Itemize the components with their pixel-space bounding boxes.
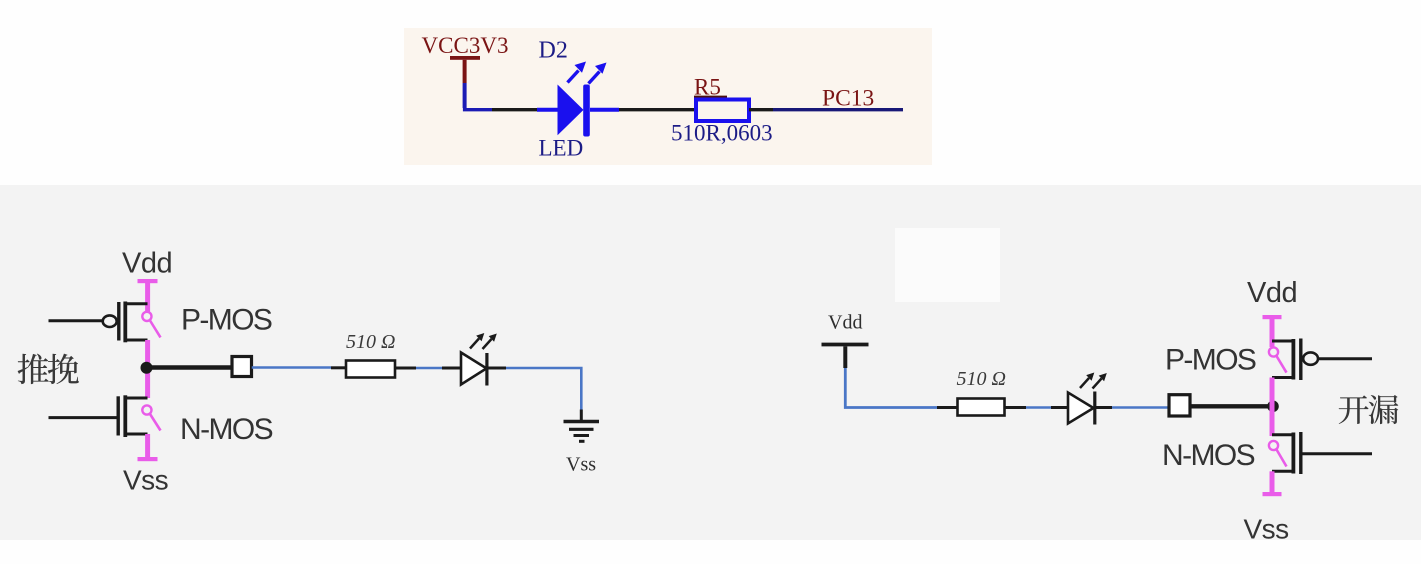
- svg-text:P-MOS: P-MOS: [1165, 344, 1256, 377]
- svg-text:510R,0603: 510R,0603: [671, 121, 773, 146]
- resistor 510 ohm (right): [958, 399, 1005, 416]
- resistor R5: [696, 100, 749, 122]
- svg-text:Vdd: Vdd: [828, 312, 862, 334]
- pin box (right): [1169, 395, 1190, 416]
- Vdd rail bar (left): [138, 279, 158, 312]
- LED D2 symbol: [537, 85, 619, 137]
- switch symbol inside N-MOS (right): [1269, 441, 1287, 467]
- LED emission arrows (left): [470, 333, 497, 349]
- node output junction (right): [1267, 401, 1279, 413]
- transistor N-MOS (right): [1272, 432, 1372, 474]
- svg-text:PC13: PC13: [822, 86, 874, 112]
- svg-text:510 Ω: 510 Ω: [346, 331, 395, 353]
- wire R5 to PC13: [749, 108, 903, 111]
- transistor P-MOS (left): [49, 302, 148, 343]
- svg-text:N-MOS: N-MOS: [1162, 439, 1255, 472]
- designator R5: [694, 75, 727, 100]
- switch symbol inside P-MOS (right): [1269, 347, 1287, 372]
- wire VCC3V3 to LED anode: [465, 83, 537, 110]
- LED D2 emission arrows: [568, 62, 607, 84]
- node output junction (left): [141, 362, 153, 374]
- transistor N-MOS (left): [49, 395, 148, 437]
- ground symbol Vss: [564, 410, 600, 442]
- svg-text:510 Ω: 510 Ω: [957, 368, 1006, 390]
- wire resistor to LED (left): [395, 367, 462, 370]
- wire pin box to resistor (left): [252, 366, 346, 369]
- svg-text:Vdd: Vdd: [122, 248, 172, 280]
- LED emission arrows (right): [1080, 373, 1107, 389]
- Vss rail bar (right): [1263, 471, 1282, 496]
- Vdd T symbol (right): [822, 345, 869, 369]
- wire drain junction (magenta, left): [145, 340, 150, 398]
- svg-text:Vss: Vss: [123, 465, 168, 496]
- svg-text:Vss: Vss: [566, 454, 596, 476]
- svg-text:Vss: Vss: [1244, 514, 1289, 545]
- svg-text:P-MOS: P-MOS: [181, 304, 272, 337]
- LED symbol (right): [1068, 392, 1112, 425]
- svg-text:LED: LED: [539, 136, 584, 161]
- svg-text:D2: D2: [539, 38, 568, 64]
- Vdd rail bar (right): [1263, 315, 1282, 347]
- svg-text:Vdd: Vdd: [1247, 277, 1297, 309]
- Vss rail bar (left): [138, 434, 158, 461]
- wire Vdd to resistor (right): [845, 368, 957, 408]
- switch symbol inside N-MOS (left): [142, 405, 160, 430]
- wire pin box to junction (right): [1190, 404, 1272, 408]
- wire resistor to LED (right): [1005, 406, 1069, 409]
- wire drain junction (magenta, right): [1270, 378, 1275, 437]
- transistor P-MOS (right): [1272, 339, 1372, 381]
- svg-text:N-MOS: N-MOS: [180, 413, 273, 446]
- power flag VCC3V3: [422, 33, 509, 83]
- label 开漏 (open drain): [1339, 395, 1399, 424]
- wire LED to R5: [619, 108, 696, 111]
- svg-text:VCC3V3: VCC3V3: [422, 33, 509, 58]
- label 推挽 (push-pull): [18, 354, 79, 385]
- wire LED to pin box (right): [1112, 406, 1169, 409]
- pin box (left): [232, 357, 252, 377]
- resistor 510 ohm (left): [346, 361, 395, 378]
- wire output to pin box (left): [150, 365, 232, 369]
- switch symbol inside P-MOS (left): [142, 312, 160, 338]
- LED symbol (left): [461, 353, 506, 386]
- wire LED to ground (left): [506, 368, 581, 410]
